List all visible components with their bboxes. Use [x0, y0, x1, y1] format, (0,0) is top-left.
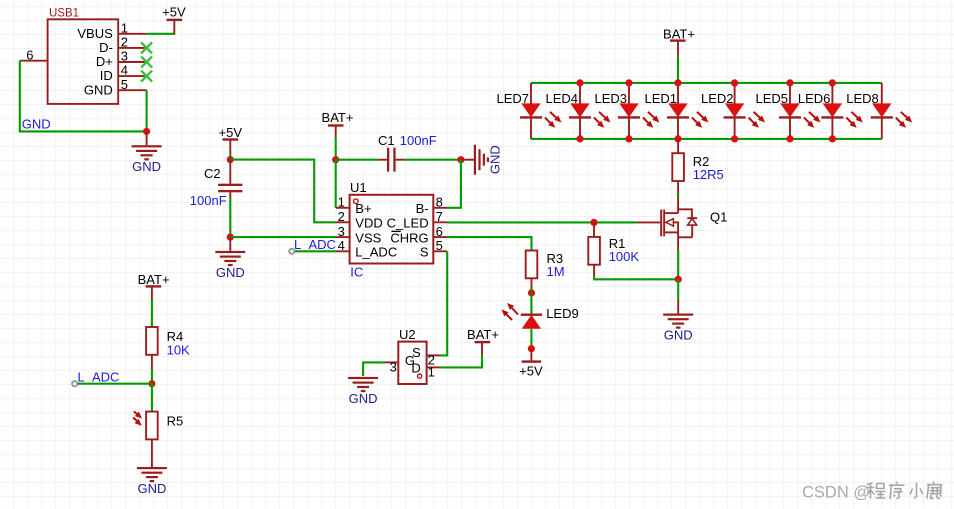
- junction +5V node: [227, 156, 234, 163]
- USB1 pin 1 VBUS: [77, 20, 146, 41]
- power BAT+ (U2): [467, 327, 499, 355]
- LED LED1: [644, 83, 708, 139]
- svg-text:VDD: VDD: [355, 216, 382, 231]
- wire BAT+ node to C1: [336, 159, 379, 161]
- junction C1 gnd node: [457, 156, 464, 163]
- svg-text:BAT+: BAT+: [322, 110, 354, 125]
- svg-text:7: 7: [436, 209, 443, 224]
- svg-text:2: 2: [338, 209, 345, 224]
- svg-text:100nF: 100nF: [400, 133, 437, 148]
- svg-text:3: 3: [121, 49, 128, 64]
- svg-text:+5V: +5V: [162, 4, 186, 19]
- U1 pin 3 VSS: [336, 224, 382, 245]
- resistor R5 (photo): [133, 411, 183, 439]
- wire U1 pin5 to U2 pin2: [440, 251, 447, 355]
- ground GND (rotated, C1): [461, 145, 503, 175]
- IC U1: [350, 180, 434, 279]
- wire U1 pin6 to R3: [447, 237, 532, 250]
- junction bottom rail at LED6: [829, 135, 836, 142]
- svg-text:ID: ID: [100, 68, 113, 83]
- LED LED5: [755, 83, 820, 139]
- IC U2: [398, 327, 426, 384]
- U1 pin 1 B+: [336, 195, 372, 216]
- svg-text:LED2: LED2: [701, 91, 734, 106]
- svg-text:100nF: 100nF: [190, 193, 227, 208]
- svg-text:U2: U2: [399, 327, 416, 342]
- capacitor C2: [190, 160, 243, 209]
- svg-text:L_ADC: L_ADC: [355, 245, 397, 260]
- wire USB shield down: [20, 61, 147, 132]
- svg-text:CHRG: CHRG: [390, 230, 428, 245]
- svg-text:12R5: 12R5: [693, 167, 724, 182]
- U2 pin 3 G: [384, 360, 398, 375]
- wire USB GND down: [146, 90, 148, 131]
- wire R3 to LED9: [531, 278, 533, 293]
- wire U2 pin3 to gnd: [363, 362, 384, 376]
- svg-text:VSS: VSS: [355, 230, 381, 245]
- wire port to L_ADC node: [78, 383, 152, 385]
- svg-text:LED7: LED7: [496, 91, 529, 106]
- LED LED3: [594, 83, 659, 139]
- svg-text:GND: GND: [84, 82, 113, 97]
- svg-text:B-: B-: [416, 201, 429, 216]
- svg-text:1: 1: [338, 195, 345, 210]
- svg-text:3: 3: [338, 224, 345, 239]
- wire BAT+ to node: [335, 138, 337, 160]
- svg-text:1: 1: [428, 365, 435, 380]
- svg-text:10K: 10K: [167, 342, 190, 357]
- svg-text:5: 5: [121, 77, 128, 92]
- USB1 pin 3 D+: [96, 49, 147, 70]
- U1 pin 5 S: [420, 238, 447, 259]
- wire junction to LED9: [530, 293, 532, 315]
- LED LED6: [798, 83, 863, 139]
- junction top rail at LED5: [786, 79, 793, 86]
- resistor R3: [526, 251, 565, 280]
- junction bottom rail at LED4: [576, 135, 583, 142]
- wire R2 to Q1 drain: [677, 181, 679, 213]
- svg-text:100K: 100K: [609, 249, 640, 264]
- wire R1 top: [593, 222, 595, 237]
- junction bottom rail at LED2: [731, 135, 738, 142]
- svg-text:D: D: [411, 361, 420, 376]
- junction bottom rail at LED5: [786, 135, 793, 142]
- connector USB1: [48, 8, 119, 104]
- svg-text:8: 8: [436, 195, 443, 210]
- wire node to R5: [151, 384, 153, 412]
- svg-text:LED5: LED5: [755, 91, 788, 106]
- junction VSS node: [227, 234, 234, 241]
- U2 pin 1 D: [427, 365, 440, 380]
- svg-text:USB1: USB1: [49, 8, 79, 20]
- svg-text:+5V: +5V: [519, 363, 543, 378]
- ground GND (Q1): [663, 314, 693, 343]
- power +5V (USB): [162, 4, 186, 35]
- transistor Q1: [636, 209, 727, 251]
- svg-text:3: 3: [390, 360, 397, 375]
- svg-text:1: 1: [121, 20, 128, 35]
- no-connect X pin 3: [141, 57, 152, 68]
- wire C1 to gnd node: [404, 159, 461, 161]
- ground GND (USB): [132, 131, 162, 174]
- wire R4 to L_ADC node: [151, 355, 153, 384]
- svg-text:D-: D-: [99, 40, 113, 55]
- power BAT+ (LED rail): [663, 26, 695, 56]
- USB1 pin 6 shield: [20, 47, 48, 62]
- svg-text:S: S: [420, 245, 429, 260]
- junction L_ADC node: [148, 380, 155, 387]
- junction USB ground node: [143, 128, 150, 135]
- ground GND (C2): [215, 237, 245, 280]
- wire rail to R2: [677, 139, 679, 154]
- USB1 pin 2 D-: [99, 35, 147, 56]
- LED LED2: [701, 83, 765, 139]
- svg-text:6: 6: [436, 224, 443, 239]
- resistor R4: [146, 327, 190, 357]
- wire VBUS to +5V: [147, 33, 175, 35]
- svg-text:GND: GND: [488, 145, 503, 174]
- net port L_ADC (left): [72, 370, 119, 387]
- svg-text:LED4: LED4: [545, 91, 578, 106]
- junction top rail at LED6: [829, 79, 836, 86]
- svg-text:LED1: LED1: [644, 91, 677, 106]
- svg-text:5: 5: [436, 238, 443, 253]
- junction top rail at LED2: [731, 79, 738, 86]
- LED LED7: [496, 83, 561, 139]
- svg-text:BAT+: BAT+: [663, 26, 695, 41]
- svg-text:4: 4: [121, 63, 128, 78]
- net port L_ADC (U1 pin4): [289, 237, 336, 254]
- svg-text:CSDN @: CSDN @: [802, 484, 870, 502]
- wire bottom LED rail: [531, 138, 882, 140]
- svg-text:6: 6: [26, 47, 33, 62]
- svg-text:L_ADC: L_ADC: [294, 237, 336, 252]
- svg-text:B+: B+: [355, 201, 371, 216]
- wire +5V to node: [229, 153, 231, 160]
- wire R5 to gnd: [151, 439, 153, 467]
- wire BAT+ node to U1 pin1: [335, 160, 337, 208]
- svg-text:LED8: LED8: [846, 91, 879, 106]
- capacitor C1: [378, 133, 437, 172]
- svg-text:4: 4: [338, 238, 345, 253]
- junction R1 top: [590, 219, 597, 226]
- wire BAT+ to R4: [151, 300, 153, 327]
- USB1 pin 4 ID: [100, 63, 147, 84]
- junction bottom rail at LED1: [674, 135, 681, 142]
- svg-text:U1: U1: [350, 180, 367, 195]
- no-connect X pin 4: [141, 71, 152, 82]
- wire top LED rail: [531, 82, 882, 84]
- U1 pin 7 C_LED: [387, 209, 447, 230]
- junction source node: [675, 276, 682, 283]
- junction BAT+ node: [332, 156, 339, 163]
- junction top rail at LED1: [674, 79, 681, 86]
- U1 pin 4 L_ADC: [336, 238, 397, 259]
- wire port to U1 pin4: [295, 250, 336, 252]
- svg-text:+5V: +5V: [219, 125, 243, 140]
- LED LED4: [545, 83, 610, 139]
- wire BAT+ to top rail: [677, 56, 679, 83]
- power BAT+ (R4): [138, 272, 170, 301]
- wire U1 pin7 to Q1 gate: [447, 221, 636, 223]
- svg-text:L_ADC: L_ADC: [78, 370, 120, 385]
- junction LED9/+5V: [528, 345, 535, 352]
- svg-text:LED3: LED3: [594, 91, 627, 106]
- svg-text:LED6: LED6: [798, 91, 831, 106]
- wire U1 pin8 to gnd node: [447, 160, 461, 208]
- ground GND (U2): [348, 377, 378, 406]
- svg-text:D+: D+: [96, 54, 113, 69]
- U1 pin 2 VDD: [336, 209, 383, 230]
- wire C2 to VSS node: [229, 197, 231, 237]
- wire VSS node to U1 pin3: [230, 236, 336, 238]
- USB1 pin 5 GND: [84, 77, 147, 98]
- svg-text:Q1: Q1: [710, 210, 727, 225]
- junction bottom rail at LED3: [625, 135, 632, 142]
- junction top rail at LED3: [625, 79, 632, 86]
- wire +5V node to U1 VDD: [230, 160, 336, 223]
- svg-text:GND: GND: [22, 116, 51, 131]
- svg-text:R5: R5: [167, 413, 184, 428]
- svg-text:LED9: LED9: [546, 306, 579, 321]
- power BAT+ (U1): [322, 110, 354, 138]
- wire R1 bottom to source node: [594, 265, 678, 280]
- svg-text:IC: IC: [350, 264, 363, 279]
- svg-text:BAT+: BAT+: [138, 272, 170, 287]
- U2 pin 2 S: [427, 353, 440, 368]
- svg-text:1M: 1M: [547, 264, 565, 279]
- svg-text:C1: C1: [378, 133, 395, 148]
- wire U2 pin1 to BAT+: [440, 354, 482, 367]
- power +5V (below LED9): [519, 349, 543, 379]
- resistor R1: [588, 236, 639, 265]
- ground GND (R5): [137, 467, 167, 496]
- junction top rail at LED4: [576, 79, 583, 86]
- svg-text:C2: C2: [204, 166, 221, 181]
- svg-text:C_LED: C_LED: [387, 216, 429, 231]
- wire source node to gnd: [677, 279, 679, 313]
- svg-text:2: 2: [121, 35, 128, 50]
- U1 pin 6 CHRG: [390, 224, 447, 245]
- wire LED9 to +5V node: [530, 329, 532, 349]
- watermark: [802, 482, 943, 502]
- no-connect X pin 2: [141, 42, 152, 53]
- LED LED9: [502, 303, 579, 329]
- svg-text:BAT+: BAT+: [467, 327, 499, 342]
- U1 pin 8 B-: [416, 195, 447, 216]
- junction R3/LED9: [528, 289, 535, 296]
- svg-text:VBUS: VBUS: [77, 26, 113, 41]
- resistor R2: [672, 153, 723, 182]
- wire Q1 source down: [677, 250, 679, 279]
- LED LED8: [846, 83, 912, 139]
- power +5V (C2 node): [219, 125, 243, 154]
